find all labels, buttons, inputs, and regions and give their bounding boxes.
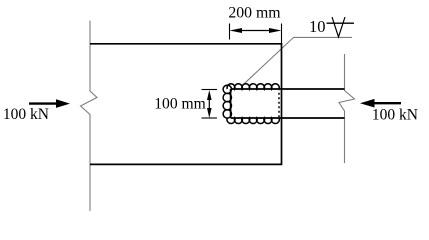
svg-text:100 kN: 100 kN <box>372 107 418 124</box>
svg-text:100 mm: 100 mm <box>154 96 206 113</box>
svg-text:10: 10 <box>309 17 326 36</box>
svg-text:200 mm: 200 mm <box>228 5 281 22</box>
svg-text:100 kN: 100 kN <box>3 106 49 123</box>
